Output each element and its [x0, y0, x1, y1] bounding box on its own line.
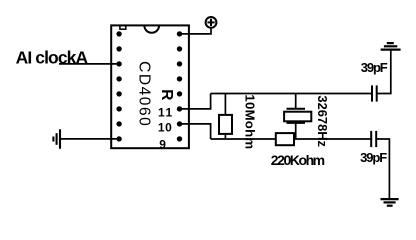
svg-text:11: 11 [158, 106, 174, 120]
label 32678Hz [315, 95, 330, 147]
wire pin 10 to bottom rail [180, 124, 211, 139]
label 39pF bottom [360, 150, 387, 165]
pin label R [158, 89, 175, 100]
pin label 10 [158, 120, 173, 134]
svg-text:39pF: 39pF [360, 150, 387, 165]
resistor 10Mohm [219, 94, 232, 140]
capacitor 39pF bottom [371, 131, 376, 147]
capacitor 39pF top [372, 85, 377, 101]
ground bottom right [381, 199, 399, 206]
svg-text:220Kohm: 220Kohm [271, 152, 325, 168]
wire AI clockA to pin 5 [59, 63, 119, 65]
resistor 220Kohm [276, 133, 294, 145]
wire power to pin 16 [180, 28, 212, 34]
wire bottom rail left segment [211, 138, 276, 140]
wire bottom rail right segment [294, 138, 371, 140]
label 39pF top [361, 60, 388, 75]
IC U1 right pin dots [177, 31, 182, 141]
crystal 32678Hz [284, 94, 311, 140]
IC U1 CD4060 body [111, 25, 189, 148]
svg-text:32678Hz: 32678Hz [315, 95, 330, 147]
label 220Kohm [271, 152, 325, 168]
ground top right [381, 43, 401, 50]
pin label 9 [159, 137, 166, 151]
pin label 11 [158, 106, 174, 120]
wire bottom cap to ground [376, 139, 389, 199]
svg-text:R: R [158, 89, 175, 100]
wire top cap to ground [377, 50, 391, 94]
svg-text:CD4060: CD4060 [136, 61, 153, 127]
wire top rail [211, 93, 372, 95]
label 10Mohm [243, 94, 258, 149]
wire ground to pin 8 [60, 138, 119, 140]
ground left [53, 129, 60, 149]
svg-text:9: 9 [159, 137, 166, 151]
wire pin 11 to top rail [180, 94, 211, 109]
svg-text:10: 10 [158, 120, 173, 134]
label AI clockA [16, 48, 89, 68]
power symbol + [206, 17, 217, 28]
svg-text:10Mohm: 10Mohm [243, 94, 258, 149]
svg-text:39pF: 39pF [361, 60, 388, 75]
IC U1 left pin dots [116, 31, 121, 141]
IC U1 label CD4060 [136, 61, 153, 127]
